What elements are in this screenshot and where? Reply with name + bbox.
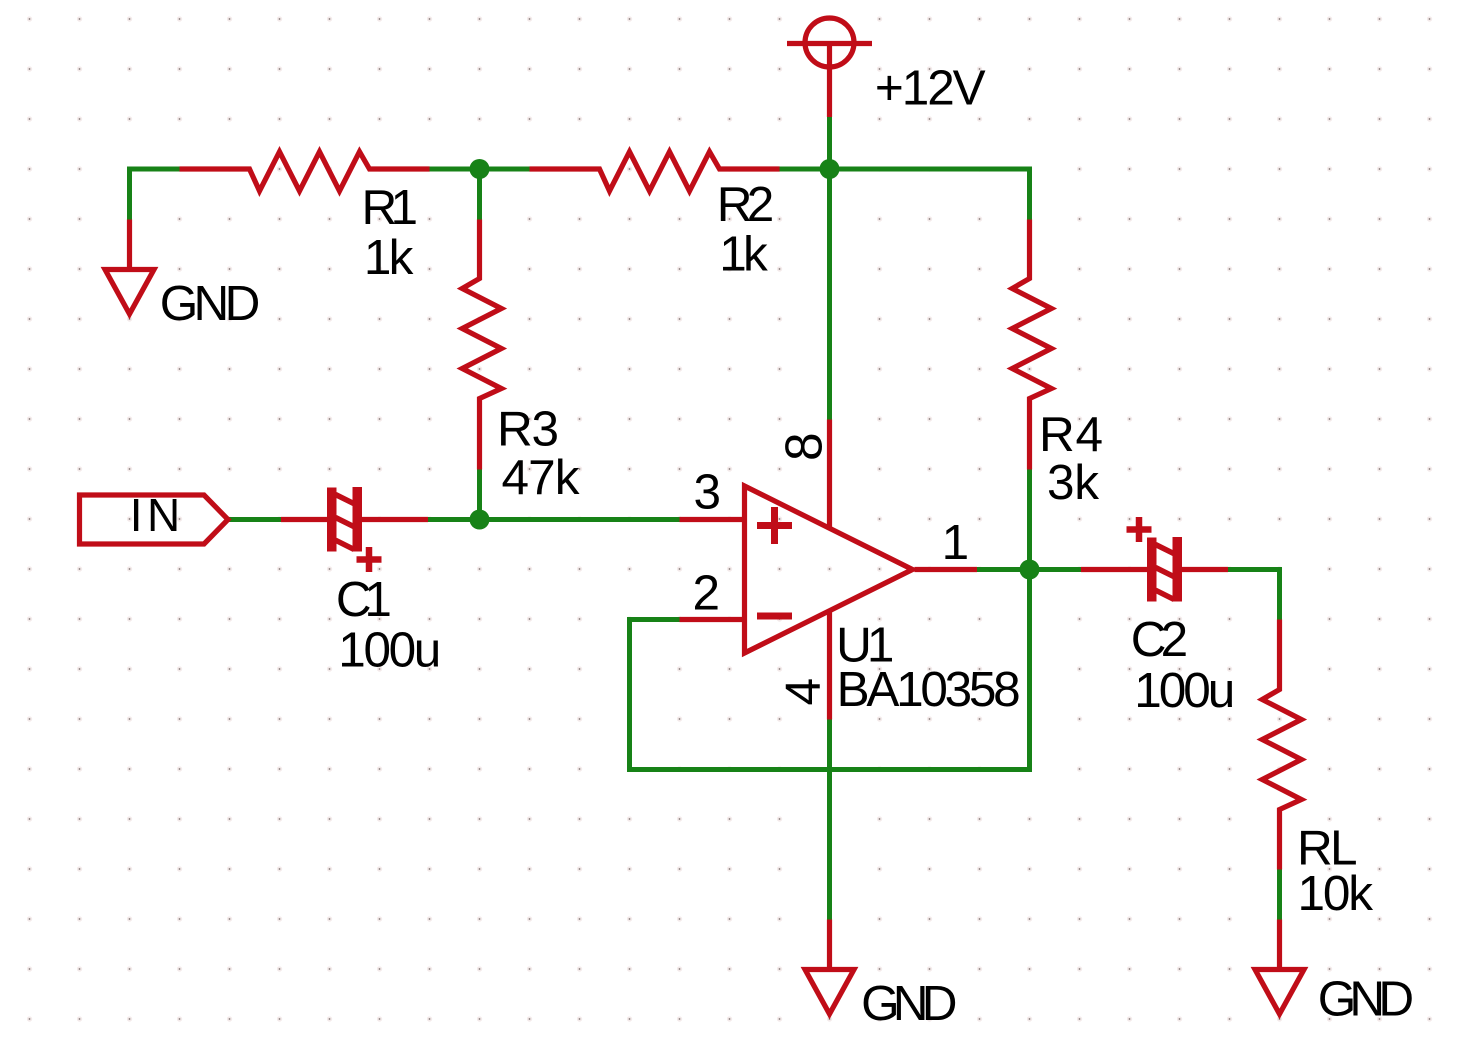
svg-text:C2: C2 xyxy=(1131,612,1189,667)
svg-text:47k: 47k xyxy=(502,450,580,505)
svg-text:IN: IN xyxy=(130,489,181,541)
svg-text:8: 8 xyxy=(775,432,833,461)
svg-text:1k: 1k xyxy=(719,227,768,282)
svg-text:4: 4 xyxy=(776,678,831,706)
svg-text:2: 2 xyxy=(693,566,721,621)
svg-text:R4: R4 xyxy=(1039,407,1103,462)
svg-text:+12V: +12V xyxy=(875,61,986,116)
svg-text:GND: GND xyxy=(861,976,957,1031)
svg-text:BA10358: BA10358 xyxy=(837,662,1021,717)
svg-text:GND: GND xyxy=(160,276,261,331)
svg-text:R2: R2 xyxy=(717,177,775,232)
svg-text:10k: 10k xyxy=(1298,866,1374,921)
svg-text:GND: GND xyxy=(1318,972,1414,1027)
svg-text:3k: 3k xyxy=(1047,455,1099,510)
svg-text:100u: 100u xyxy=(338,623,441,678)
svg-text:R3: R3 xyxy=(497,402,559,457)
svg-text:R1: R1 xyxy=(362,180,419,235)
svg-text:C1: C1 xyxy=(336,572,392,627)
svg-text:100u: 100u xyxy=(1134,663,1235,718)
svg-text:3: 3 xyxy=(694,465,722,520)
svg-text:1: 1 xyxy=(942,515,970,570)
svg-text:1k: 1k xyxy=(364,230,414,285)
